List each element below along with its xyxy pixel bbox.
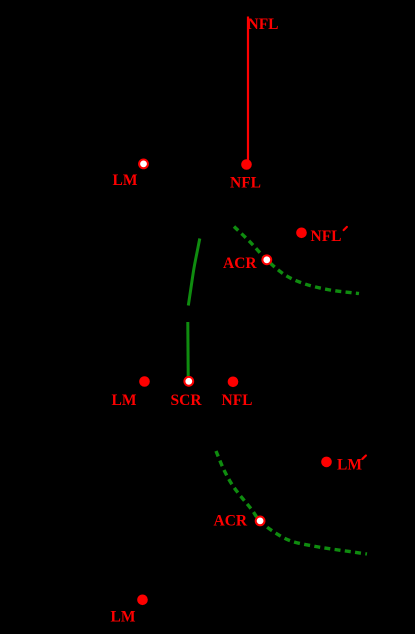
node SCR (open point, middle row) bbox=[184, 377, 193, 386]
label NFL (below upper point) bbox=[230, 175, 261, 192]
svg-text:NFL: NFL bbox=[222, 392, 253, 409]
svg-text:ACR: ACR bbox=[214, 513, 248, 530]
label LM (bottom) bbox=[111, 609, 136, 626]
curve: green dashed hyperbola (upper) through ACR bbox=[234, 227, 359, 294]
node ACR (open point, upper) bbox=[262, 255, 271, 264]
svg-text:LM: LM bbox=[337, 456, 362, 473]
wire: red vertical drop line from top NFL label to NFL point bbox=[247, 17, 249, 161]
label NFL (top) bbox=[248, 16, 279, 33]
prime tick of NFL' bbox=[344, 227, 347, 230]
label LM' bbox=[337, 456, 362, 473]
node NFL (filled point, upper) bbox=[241, 159, 252, 170]
curve: green dashed hyperbola (lower) through ACR bbox=[216, 451, 367, 554]
label ACR (upper) bbox=[223, 255, 257, 272]
label SCR bbox=[171, 392, 203, 409]
node LM' (filled point) bbox=[321, 457, 332, 468]
label NFL (middle row) bbox=[222, 392, 253, 409]
svg-text:ACR: ACR bbox=[223, 255, 257, 272]
svg-text:SCR: SCR bbox=[171, 392, 203, 409]
label LM (middle row) bbox=[112, 392, 137, 409]
label ACR (lower) bbox=[214, 513, 248, 530]
svg-text:NFL: NFL bbox=[230, 175, 261, 192]
prime tick of LM' bbox=[363, 456, 366, 459]
svg-text:LM: LM bbox=[111, 609, 136, 626]
curve: solid green segment (lower, vertical into SCR) bbox=[186, 322, 189, 376]
svg-text:NFL: NFL bbox=[248, 16, 279, 33]
svg-text:LM: LM bbox=[112, 392, 137, 409]
node LM (filled point, middle row) bbox=[139, 376, 150, 387]
node NFL' (filled point) bbox=[296, 228, 307, 239]
node NFL (filled point, middle row) bbox=[228, 377, 239, 388]
label NFL' bbox=[311, 228, 342, 245]
node LM (filled point, bottom) bbox=[137, 595, 148, 606]
node LM (open point, upper left) bbox=[139, 160, 148, 169]
node ACR (open point, lower) bbox=[256, 517, 265, 526]
svg-text:LM: LM bbox=[113, 172, 138, 189]
label LM (upper left) bbox=[113, 172, 138, 189]
svg-text:NFL: NFL bbox=[311, 228, 342, 245]
curve: solid green segment (upper, slanted) bbox=[188, 239, 200, 306]
